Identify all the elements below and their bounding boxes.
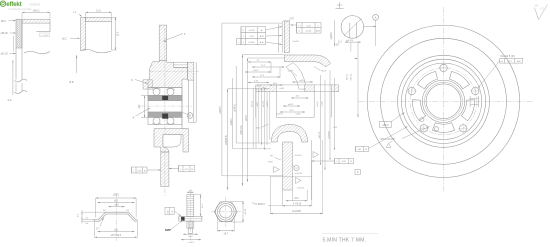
svg-text:2.8: 2.8 bbox=[172, 211, 174, 214]
center section hat top label bbox=[290, 18, 295, 21]
svg-text:↗: ↗ bbox=[180, 168, 182, 171]
stud detail left box bbox=[165, 207, 181, 216]
svg-text:C: C bbox=[296, 167, 298, 170]
cap detail centerline bbox=[116, 193, 118, 241]
detail view 1 left labels bbox=[1, 20, 16, 56]
hub view bearing balls top row bbox=[152, 88, 175, 95]
svg-text:17°: 17° bbox=[96, 229, 100, 231]
detail view 1 break line bbox=[15, 79, 28, 94]
svg-text:8±0.2: 8±0.2 bbox=[254, 70, 260, 72]
hub view disc hat band right bbox=[188, 62, 194, 80]
disc label diameter 55.2 box bbox=[379, 113, 404, 128]
svg-text:⌀16.25: ⌀16.25 bbox=[295, 172, 303, 175]
center section left step dimensions bbox=[245, 60, 284, 83]
svg-text:B-B: B-B bbox=[70, 81, 74, 84]
svg-text:⊥: ⊥ bbox=[238, 41, 240, 44]
svg-text:plastics: plastics bbox=[30, 3, 41, 7]
center section hat top band hatched bbox=[284, 55, 330, 67]
svg-text:5X⌀13.5 (D): 5X⌀13.5 (D) bbox=[501, 54, 515, 58]
cap detail profile bbox=[94, 212, 137, 221]
detail view 2 hatched top flange bbox=[86, 17, 112, 50]
hub view flange hatched bbox=[148, 61, 188, 88]
svg-text:A-B: A-B bbox=[517, 60, 521, 63]
hub view disc hat wedge left bbox=[143, 80, 152, 89]
nut detail centerlines bbox=[211, 197, 241, 227]
hub view stem hatched bbox=[161, 152, 169, 187]
svg-text:32.8: 32.8 bbox=[117, 31, 119, 36]
hub view runout frame left bbox=[132, 167, 161, 173]
svg-text:B: B bbox=[189, 114, 191, 118]
hub view centerline bbox=[164, 28, 166, 196]
hub view bearing seal squares bbox=[162, 96, 168, 119]
hub view bearing balls bottom row bbox=[152, 117, 175, 124]
detail view 2 hatched vertical wall bbox=[81, 17, 86, 50]
detail view 2 lower dimension line bbox=[70, 55, 78, 84]
center section hat slope curves bbox=[286, 41, 306, 89]
svg-text:14±0.2: 14±0.2 bbox=[32, 11, 40, 13]
disc balance weight mark bbox=[470, 96, 479, 107]
center section bore left dimension texts bbox=[251, 88, 269, 148]
cap detail angle label bbox=[96, 218, 104, 231]
hub view hub cylinder right bbox=[182, 62, 196, 129]
center section bore vertical edges bbox=[256, 92, 332, 118]
center section bore hatched band segments bbox=[256, 85, 339, 92]
svg-text:⌀61.8: ⌀61.8 bbox=[316, 101, 319, 107]
svg-text:12.6: 12.6 bbox=[96, 11, 101, 13]
cap detail top dimensions bbox=[96, 194, 136, 218]
stud detail SMP label bbox=[165, 220, 183, 232]
nut detail right dimension bbox=[232, 202, 255, 222]
svg-text:R2.5a: R2.5a bbox=[347, 73, 349, 80]
svg-text:7/7.09±0.5: 7/7.09±0.5 bbox=[254, 204, 266, 206]
center section stem labels bbox=[269, 155, 305, 190]
svg-text:⌀57.5±0.5: ⌀57.5±0.5 bbox=[111, 234, 122, 237]
detail view 1 top dimension bbox=[22, 11, 50, 19]
svg-text:⌀60.1: ⌀60.1 bbox=[256, 101, 259, 107]
hub view disc hat wall hatched bbox=[159, 25, 166, 61]
svg-text:⊙: ⊙ bbox=[298, 30, 300, 33]
disc top balloon bbox=[373, 14, 379, 46]
stud detail black seal bbox=[181, 217, 185, 221]
detail view 2 corner dimension bbox=[73, 12, 82, 17]
center section right boundary line bbox=[312, 140, 319, 200]
svg-text:↗↗: ↗↗ bbox=[297, 24, 301, 27]
svg-text:⌀55.26: ⌀55.26 bbox=[1, 32, 9, 35]
surface finish symbol bbox=[535, 4, 548, 20]
svg-text:⌀34(54.5): ⌀34(54.5) bbox=[225, 135, 228, 145]
disc datum box lower left bbox=[355, 170, 361, 175]
svg-text:A-A: A-A bbox=[8, 99, 12, 102]
stud detail top dimension bbox=[187, 189, 194, 193]
svg-text:R0.6: R0.6 bbox=[1, 21, 7, 23]
projection symbol bbox=[336, 3, 344, 9]
svg-text:A-B: A-B bbox=[316, 30, 320, 33]
stud detail knurl bbox=[187, 221, 194, 233]
svg-text:technische formteile: technische formteile bbox=[9, 7, 33, 11]
svg-text:19.7: 19.7 bbox=[224, 234, 229, 236]
svg-text:⊙: ⊙ bbox=[242, 29, 244, 32]
disc service holes bbox=[420, 118, 439, 131]
svg-text:0.5x45°: 0.5x45° bbox=[293, 41, 300, 43]
svg-text:3.5±0.2: 3.5±0.2 bbox=[295, 155, 303, 157]
svg-text:↗: ↗ bbox=[336, 160, 338, 163]
svg-text:1.125: 1.125 bbox=[322, 101, 324, 107]
svg-text:⌀226.5: ⌀226.5 bbox=[219, 106, 222, 114]
disc windows between studs bbox=[412, 71, 474, 132]
svg-text:34.2/925: 34.2/925 bbox=[292, 211, 302, 213]
svg-text:A-B: A-B bbox=[260, 35, 264, 38]
svg-text:⌀(220): ⌀(220) bbox=[330, 32, 333, 39]
svg-text:⌀5.2: ⌀5.2 bbox=[62, 37, 67, 40]
svg-text:2:1: 2:1 bbox=[338, 40, 342, 44]
detail view 1 cross-hatched vertical wall bbox=[16, 19, 22, 79]
stud detail right dimension bbox=[194, 195, 204, 217]
hub view leader 1 bbox=[164, 32, 187, 43]
stud detail bottom dimensions bbox=[181, 233, 201, 244]
svg-text:⌀42.15: ⌀42.15 bbox=[318, 131, 321, 139]
detail view 1 label box bbox=[40, 33, 50, 37]
hub view bearing inner race band top bbox=[148, 95, 182, 101]
detail view 2 left leader bbox=[62, 37, 80, 40]
hub view leader 4 bbox=[133, 108, 151, 120]
svg-text:⊕: ⊕ bbox=[501, 60, 503, 63]
center section left dimension lines bbox=[219, 23, 283, 190]
svg-text:⌀(34.9): ⌀(34.9) bbox=[234, 104, 237, 112]
detail view 2 top dimension bbox=[86, 11, 112, 17]
disc outer circle bbox=[367, 25, 519, 177]
svg-text:⌀0.03: ⌀0.03 bbox=[306, 30, 312, 33]
svg-text:⌀34.9: ⌀34.9 bbox=[266, 101, 269, 107]
logo effekt icon bbox=[0, 1, 5, 6]
center section right dimension lines bbox=[318, 70, 338, 170]
center section tolerance frame right bbox=[291, 23, 322, 34]
svg-text:⌀(0.15): ⌀(0.15) bbox=[262, 100, 265, 107]
hub view balloon B bbox=[183, 113, 193, 119]
svg-text:⌀55.2: ⌀55.2 bbox=[382, 124, 389, 127]
hub view lower body hatched bbox=[154, 129, 189, 152]
detail view 1 hatched top flange bbox=[22, 19, 50, 48]
hub view stud centerline bbox=[150, 70, 199, 72]
svg-text:⌀34.2: ⌀34.2 bbox=[288, 103, 294, 106]
hub view leader 3 bbox=[131, 78, 148, 84]
hub view bearing outline bbox=[148, 88, 182, 125]
disc friction band inner circle bbox=[381, 38, 507, 164]
center section stem hatched bbox=[283, 142, 293, 190]
svg-text:4.7/0.25: 4.7/0.25 bbox=[293, 204, 302, 206]
svg-text:A: A bbox=[375, 15, 377, 19]
svg-text:⌀16.25: ⌀16.25 bbox=[297, 187, 305, 190]
svg-text:⌀55.5: ⌀55.5 bbox=[113, 194, 120, 197]
note 5 MIN THK 7 MM bbox=[322, 234, 378, 244]
svg-text:⌀52.26: ⌀52.26 bbox=[1, 53, 9, 56]
svg-text:0.5 MAX: 0.5 MAX bbox=[41, 34, 49, 37]
disc label left box bbox=[356, 127, 408, 152]
section marker circle 2:1 bbox=[338, 16, 376, 44]
svg-text:0.05/⌀: 0.05/⌀ bbox=[249, 41, 256, 44]
disc left dimension column bbox=[345, 39, 361, 117]
hub view bearing middle white band bbox=[140, 105, 192, 107]
disc view vertical centerline bbox=[443, 7, 445, 193]
hub view flange notch bbox=[174, 62, 188, 67]
svg-text:⌀42.9: ⌀42.9 bbox=[299, 79, 305, 82]
svg-text:⌀6.35: ⌀6.35 bbox=[244, 208, 247, 214]
nut detail hexagon bbox=[214, 202, 237, 222]
svg-text:A-B: A-B bbox=[260, 41, 264, 44]
disc top right label bbox=[478, 54, 523, 88]
stud detail centerline bbox=[189, 191, 191, 241]
logo effekt text bbox=[6, 1, 40, 11]
svg-text:R0.4: R0.4 bbox=[322, 71, 327, 73]
svg-text:⌀63.15: ⌀63.15 bbox=[251, 100, 254, 107]
cap detail left dimensions bbox=[78, 210, 106, 225]
center section small labels upper bbox=[288, 67, 327, 92]
svg-text:↗: ↗ bbox=[133, 169, 135, 172]
hub view bearing inner race band bottom bbox=[148, 112, 182, 118]
center section bottom dimensions bbox=[254, 140, 323, 214]
svg-text:34.3: 34.3 bbox=[294, 198, 299, 200]
center section dome hatched bbox=[271, 125, 308, 143]
svg-text:⌀14.3: ⌀14.3 bbox=[188, 241, 194, 244]
center section right top dimension bbox=[330, 20, 340, 47]
stud detail flange bbox=[179, 217, 202, 222]
center section tolerance frame stack left bbox=[236, 26, 282, 45]
svg-text:A(20.03): A(20.03) bbox=[240, 125, 243, 134]
svg-text:2x45°a: 2x45°a bbox=[277, 114, 284, 116]
svg-text:⌀30: ⌀30 bbox=[138, 104, 141, 109]
svg-text:A: A bbox=[357, 170, 359, 174]
svg-text:2x45°: 2x45° bbox=[288, 71, 294, 73]
svg-text:effekt: effekt bbox=[6, 1, 21, 8]
hub view runout frame right bbox=[169, 166, 195, 172]
svg-text:4.4: 4.4 bbox=[168, 211, 170, 214]
center section bore middle dims bbox=[277, 87, 324, 116]
detail view 2 right dimension bbox=[112, 17, 119, 50]
svg-text:5.MIN THK 7 MM.: 5.MIN THK 7 MM. bbox=[323, 238, 367, 244]
center section left extension lines bbox=[228, 55, 312, 177]
svg-text:⌀41/925: ⌀41/925 bbox=[327, 130, 330, 139]
detail view 1 lower extension line bbox=[8, 60, 14, 102]
detail view 1 inner break line bbox=[24, 51, 50, 53]
center section hat wall hatched bbox=[283, 21, 290, 53]
center section friction ring lines bbox=[279, 21, 283, 53]
nut detail bottom dimension bbox=[217, 216, 234, 236]
svg-text:SMP: SMP bbox=[165, 228, 171, 232]
svg-text:⌀(4.25): ⌀(4.25) bbox=[346, 39, 353, 42]
svg-text:⌀61.8: ⌀61.8 bbox=[245, 114, 248, 121]
stud detail shaft bbox=[187, 195, 194, 217]
nut detail circles bbox=[216, 202, 236, 222]
svg-text:⌀0.03: ⌀0.03 bbox=[249, 29, 255, 32]
svg-text:C97: C97 bbox=[290, 18, 295, 21]
detail view 2 break line bbox=[81, 49, 112, 53]
disc stud holes bbox=[407, 63, 481, 133]
svg-text:⌀(220): ⌀(220) bbox=[230, 118, 233, 125]
center section bore extra dimension lines bbox=[261, 88, 305, 150]
disc bolt circle bbox=[410, 68, 477, 135]
disc bore circles bbox=[422, 80, 464, 122]
disc view horizontal centerline bbox=[359, 100, 535, 102]
svg-text:↗: ↗ bbox=[242, 41, 244, 44]
cap detail bottom dimensions bbox=[95, 222, 138, 238]
disc label MCA bbox=[381, 127, 430, 148]
hub view left diameter dimension bbox=[138, 96, 148, 118]
svg-text:23°: 23° bbox=[336, 44, 340, 47]
disc hub face outer circles bbox=[398, 55, 490, 147]
center section mid horizontal dims bbox=[256, 79, 313, 130]
center section right tolerance frame bbox=[312, 159, 354, 164]
svg-text:⌀57.5a: ⌀57.5a bbox=[350, 73, 353, 81]
